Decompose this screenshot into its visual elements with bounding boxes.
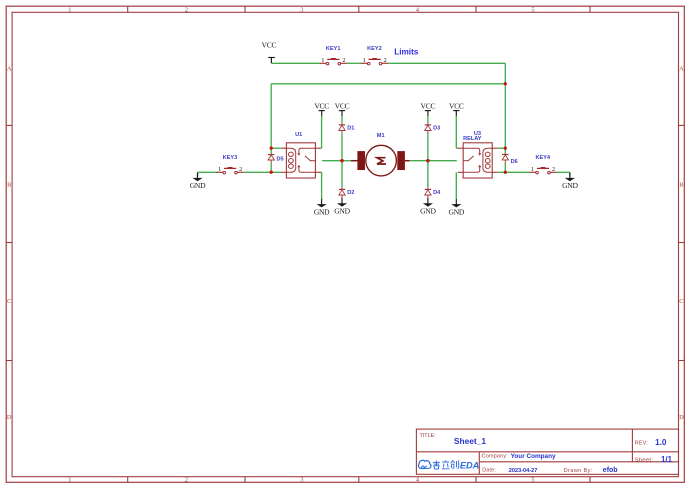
- svg-text:1: 1: [68, 6, 71, 13]
- svg-text:2: 2: [185, 477, 188, 484]
- svg-text:D: D: [679, 414, 684, 421]
- svg-text:D5: D5: [277, 156, 284, 162]
- svg-text:GND: GND: [420, 207, 436, 216]
- svg-text:5: 5: [531, 477, 534, 484]
- svg-text:VCC: VCC: [335, 102, 350, 111]
- svg-text:D3: D3: [433, 125, 440, 131]
- svg-text:B: B: [679, 182, 683, 189]
- svg-text:1.0: 1.0: [655, 438, 667, 447]
- svg-text:Drawn By:: Drawn By:: [564, 468, 593, 474]
- svg-text:1/1: 1/1: [661, 455, 673, 464]
- svg-text:M1: M1: [377, 133, 385, 139]
- svg-text:KEY1: KEY1: [326, 46, 341, 52]
- svg-text:D4: D4: [433, 190, 441, 196]
- svg-text:Sheet:: Sheet:: [635, 457, 653, 463]
- svg-text:2: 2: [239, 166, 242, 173]
- svg-text:B: B: [7, 182, 11, 189]
- svg-text:VCC: VCC: [449, 102, 464, 111]
- svg-text:2: 2: [552, 166, 555, 173]
- svg-text:D2: D2: [347, 190, 354, 196]
- svg-text:1: 1: [68, 477, 71, 484]
- svg-text:D: D: [7, 414, 12, 421]
- svg-text:Limits: Limits: [394, 48, 419, 57]
- svg-text:GND: GND: [334, 207, 350, 216]
- svg-text:GND: GND: [190, 181, 206, 190]
- svg-text:3: 3: [300, 477, 303, 484]
- svg-text:GND: GND: [562, 181, 578, 190]
- svg-text:VCC: VCC: [421, 102, 436, 111]
- svg-text:1: 1: [363, 57, 366, 64]
- svg-text:Company:: Company:: [482, 453, 508, 459]
- svg-text:VCC: VCC: [262, 40, 277, 49]
- svg-text:A: A: [7, 65, 12, 72]
- svg-text:2: 2: [185, 6, 188, 13]
- svg-text:1: 1: [321, 57, 324, 64]
- svg-text:D1: D1: [347, 125, 354, 131]
- svg-text:EDA: EDA: [460, 461, 479, 471]
- svg-text:efob: efob: [603, 467, 618, 474]
- svg-text:Date:: Date:: [482, 468, 496, 474]
- svg-text:5: 5: [531, 6, 534, 13]
- svg-text:KEY2: KEY2: [367, 46, 382, 52]
- svg-text:TITLE:: TITLE:: [420, 433, 436, 439]
- svg-text:Your Company: Your Company: [511, 453, 556, 460]
- svg-text:GND: GND: [449, 207, 465, 216]
- svg-text:KEY4: KEY4: [535, 155, 551, 161]
- svg-text:2023-04-27: 2023-04-27: [509, 468, 539, 474]
- svg-text:GND: GND: [314, 207, 330, 216]
- svg-text:KEY3: KEY3: [223, 155, 238, 161]
- svg-text:RELAY: RELAY: [463, 136, 482, 142]
- svg-text:2: 2: [342, 57, 345, 64]
- svg-text:C: C: [679, 298, 683, 305]
- svg-text:3: 3: [300, 6, 303, 13]
- svg-text:VCC: VCC: [314, 102, 329, 111]
- svg-text:1: 1: [531, 166, 534, 173]
- svg-text:A: A: [679, 65, 684, 72]
- svg-text:U1: U1: [295, 132, 302, 138]
- svg-text:C: C: [7, 298, 11, 305]
- svg-text:1: 1: [218, 166, 221, 173]
- svg-text:REV:: REV:: [635, 441, 648, 447]
- svg-text:Sheet_1: Sheet_1: [454, 436, 486, 446]
- svg-text:2: 2: [384, 57, 387, 64]
- svg-text:D6: D6: [511, 159, 518, 165]
